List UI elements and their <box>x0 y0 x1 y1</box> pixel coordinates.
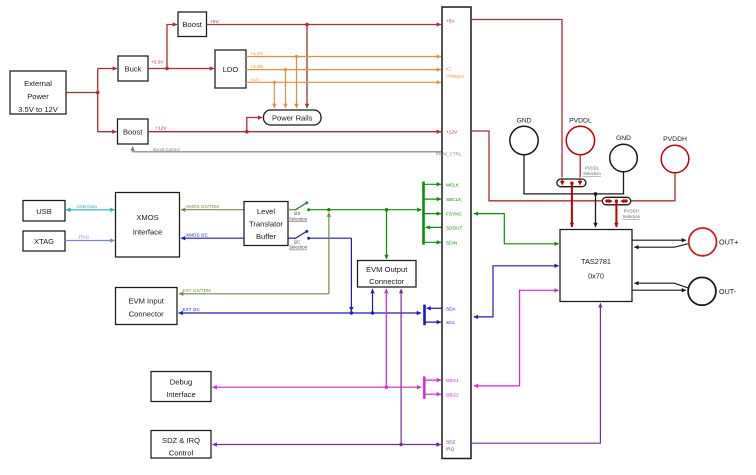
svg-text:PVDDH: PVDDH <box>624 209 639 214</box>
svg-text:SDOUT: SDOUT <box>446 226 463 231</box>
svg-text:XMOS I2C: XMOS I2C <box>186 233 209 238</box>
svg-text:USB: USB <box>36 207 52 216</box>
wire SDA stub <box>427 307 443 309</box>
svg-text:IRQ: IRQ <box>446 447 455 452</box>
wire SDZ purple <box>213 443 442 446</box>
svg-text:XMOS: XMOS <box>136 213 158 222</box>
node label +12V <box>446 130 458 135</box>
node label PWM_CTRL <box>436 151 462 156</box>
svg-text:+5V: +5V <box>210 19 219 25</box>
wire GND net <box>524 155 624 227</box>
wire +5V to PVDDL selection <box>471 20 562 178</box>
svg-text:Connector: Connector <box>129 310 165 319</box>
node label SBCLK <box>446 197 462 202</box>
wire SBCLK stub <box>424 198 442 200</box>
wire PVDD to TAS2781 <box>571 183 573 227</box>
svg-text:SBCLK: SBCLK <box>446 197 462 202</box>
svg-text:Translator: Translator <box>249 220 283 229</box>
node label DBG1 <box>446 378 459 383</box>
svg-text:GND: GND <box>516 118 531 125</box>
block Level Translator Buffer <box>244 202 288 246</box>
svg-text:MCLK: MCLK <box>446 182 460 187</box>
block XTAG <box>23 231 65 251</box>
svg-text:DBG1: DBG1 <box>446 378 459 383</box>
block Boost top <box>178 12 207 37</box>
svg-text:Selection: Selection <box>583 171 601 176</box>
svg-text:Debug: Debug <box>170 378 192 387</box>
svg-text:3.5V to 12V: 3.5V to 12V <box>18 105 59 114</box>
svg-text:+12V: +12V <box>446 130 458 135</box>
node magenta bus <box>423 376 425 398</box>
wire OUT+ pair <box>632 240 688 247</box>
svg-text:Boost: Boost <box>182 20 202 29</box>
svg-text:External: External <box>24 79 52 88</box>
block LDO <box>215 50 246 88</box>
svg-text:SDZ: SDZ <box>446 440 456 445</box>
svg-text:Level: Level <box>257 207 275 216</box>
block SDZ IRQ Control <box>151 431 211 459</box>
svg-text:SDZ & IRQ: SDZ & IRQ <box>162 436 200 445</box>
wire purple EVM output drop <box>399 289 402 446</box>
svg-text:EXT I2S/TDM: EXT I2S/TDM <box>183 288 211 293</box>
block External Power <box>10 71 66 114</box>
node label SDZ IRQ <box>446 440 456 452</box>
svg-text:+1.2V: +1.2V <box>251 51 264 57</box>
svg-text:+12V: +12V <box>155 126 167 132</box>
wire I2C to TAS2781 <box>474 266 559 317</box>
wire I2S bus to green node <box>309 208 422 211</box>
svg-text:Boost: Boost <box>123 128 143 137</box>
wire DBG1 stub <box>424 379 441 381</box>
svg-text:+1V: +1V <box>251 77 260 83</box>
svg-text:XTAG: XTAG <box>34 237 54 246</box>
svg-text:Selection: Selection <box>289 216 308 221</box>
wire +1.8V <box>246 64 441 108</box>
wire +5V boost to connector <box>207 19 442 108</box>
svg-text:SDA: SDA <box>446 306 457 311</box>
terminal PVDDH <box>661 136 689 173</box>
wire debug magenta <box>213 386 422 388</box>
svg-text:+3.3V: +3.3V <box>151 60 164 66</box>
wire EXT I2S/TDM <box>179 213 329 294</box>
svg-text:PWM_CTRL: PWM_CTRL <box>436 151 462 156</box>
svg-text:DBG2: DBG2 <box>446 392 459 397</box>
svg-text:+1.8V: +1.8V <box>251 64 264 70</box>
wire SDOUT stub <box>426 226 443 228</box>
terminal PVDDL <box>566 118 594 155</box>
svg-text:EVM Output: EVM Output <box>366 265 408 274</box>
svg-text:Selection: Selection <box>289 245 308 250</box>
block TAS2781 U1 <box>560 230 632 302</box>
wire external power feed <box>66 69 117 132</box>
wire I2C down to ext bus <box>309 238 353 314</box>
connector central bar <box>442 7 471 459</box>
wire OUT- pair <box>632 283 688 290</box>
node label SDIN <box>446 240 457 245</box>
wire SCL stub <box>425 321 442 323</box>
block XMOS Interface <box>116 193 180 258</box>
svg-text:OUT+: OUT+ <box>719 238 738 247</box>
block USB <box>23 201 65 222</box>
terminal GND 1 <box>510 118 538 155</box>
wire PVDDL drop <box>579 155 581 178</box>
block EVM Output Connector <box>358 261 417 288</box>
jumper PVDDL Selection <box>557 166 602 187</box>
wire I2S to TAS2781 <box>474 214 559 244</box>
node blue I2C bus <box>423 305 426 326</box>
svg-text:0x70: 0x70 <box>588 272 604 281</box>
svg-text:Control: Control <box>169 449 194 458</box>
wire +1V <box>246 77 441 108</box>
svg-text:USB Data: USB Data <box>77 204 98 209</box>
node label +5V <box>446 19 455 24</box>
wire JTAG <box>65 235 115 241</box>
wire MCLK stub <box>424 183 442 185</box>
jumper PVDDH Selection <box>602 197 640 219</box>
terminal GND 2 <box>610 135 638 172</box>
block Boost bottom <box>118 119 149 144</box>
wire DBG to TAS2781 <box>474 290 559 386</box>
wire +12V to PVDDH selection <box>471 131 602 201</box>
wire SDIN stub <box>424 241 442 243</box>
svg-text:Power: Power <box>27 92 49 101</box>
svg-text:Interface: Interface <box>133 228 163 237</box>
block Buck <box>118 56 148 81</box>
svg-text:Connector: Connector <box>369 277 405 286</box>
block EVM Input Connector <box>116 288 178 325</box>
svg-text:JTAG: JTAG <box>78 235 90 240</box>
block Debug Interface <box>151 372 211 402</box>
wire DBG2 stub <box>424 393 441 395</box>
node green bus <box>422 182 425 245</box>
wire +1.2V <box>246 51 441 108</box>
svg-text:IO: IO <box>446 67 451 72</box>
node label DBG2 <box>446 392 459 397</box>
svg-text:SCL: SCL <box>446 320 456 325</box>
node label SCL <box>446 320 456 325</box>
switch I2S Selection <box>288 201 310 221</box>
svg-text:+5V: +5V <box>446 19 455 24</box>
wire EXT I2C <box>179 307 422 313</box>
wire green drop to EVM Output Connector <box>386 210 388 259</box>
svg-text:XMOS I2S/TDM: XMOS I2S/TDM <box>186 204 219 209</box>
svg-text:Buck: Buck <box>125 64 142 73</box>
terminal OUT+ <box>689 228 739 256</box>
svg-text:EVM Input: EVM Input <box>128 297 164 306</box>
wire FSYNC stub <box>424 213 442 215</box>
node label SDA <box>446 306 457 311</box>
svg-text:OUT-: OUT- <box>719 287 737 296</box>
svg-text:Buffer: Buffer <box>256 232 277 241</box>
svg-text:PVDDH: PVDDH <box>663 136 687 143</box>
wire XMOS I2C <box>181 233 244 239</box>
svg-text:FSYNC: FSYNC <box>446 212 463 217</box>
wire SDZ to TAS2781 <box>471 303 600 443</box>
wire USB Data <box>66 204 115 210</box>
svg-text:I2S: I2S <box>294 211 301 216</box>
svg-text:PVDDL: PVDDL <box>569 118 592 125</box>
node label FSYNC <box>446 212 463 217</box>
switch I2C Selection <box>288 230 310 250</box>
svg-text:PVDDL: PVDDL <box>585 166 600 171</box>
wire PVDDH to TAS2781 <box>615 201 617 227</box>
wire +12V <box>148 118 441 134</box>
node label SDOUT <box>446 226 463 231</box>
svg-text:TAS2781: TAS2781 <box>581 257 611 266</box>
wire magenta EVM output drop <box>385 289 388 389</box>
node label IO Voltages <box>446 67 465 79</box>
svg-text:GND: GND <box>616 135 631 142</box>
svg-text:EXT I2C: EXT I2C <box>183 307 201 312</box>
svg-text:Selection: Selection <box>622 214 640 219</box>
svg-text:Power Rails: Power Rails <box>272 114 313 123</box>
wire PVDDH drop <box>631 173 675 201</box>
svg-text:Boost Control: Boost Control <box>153 147 180 152</box>
block Power Rails <box>264 110 322 125</box>
terminal OUT- <box>688 277 737 305</box>
wire +3.3V Buck to LDO and Boost <box>148 25 214 71</box>
wire Boost Control <box>133 147 442 152</box>
svg-text:I2C: I2C <box>294 239 301 244</box>
svg-text:LDO: LDO <box>223 65 239 74</box>
svg-text:SDIN: SDIN <box>446 240 457 245</box>
node label MCLK <box>446 182 460 187</box>
svg-text:Interface: Interface <box>166 390 196 399</box>
svg-text:Voltages: Voltages <box>446 74 465 79</box>
wire XMOS I2S/TDM <box>181 204 244 210</box>
wire blue EVM output drop <box>371 289 374 315</box>
